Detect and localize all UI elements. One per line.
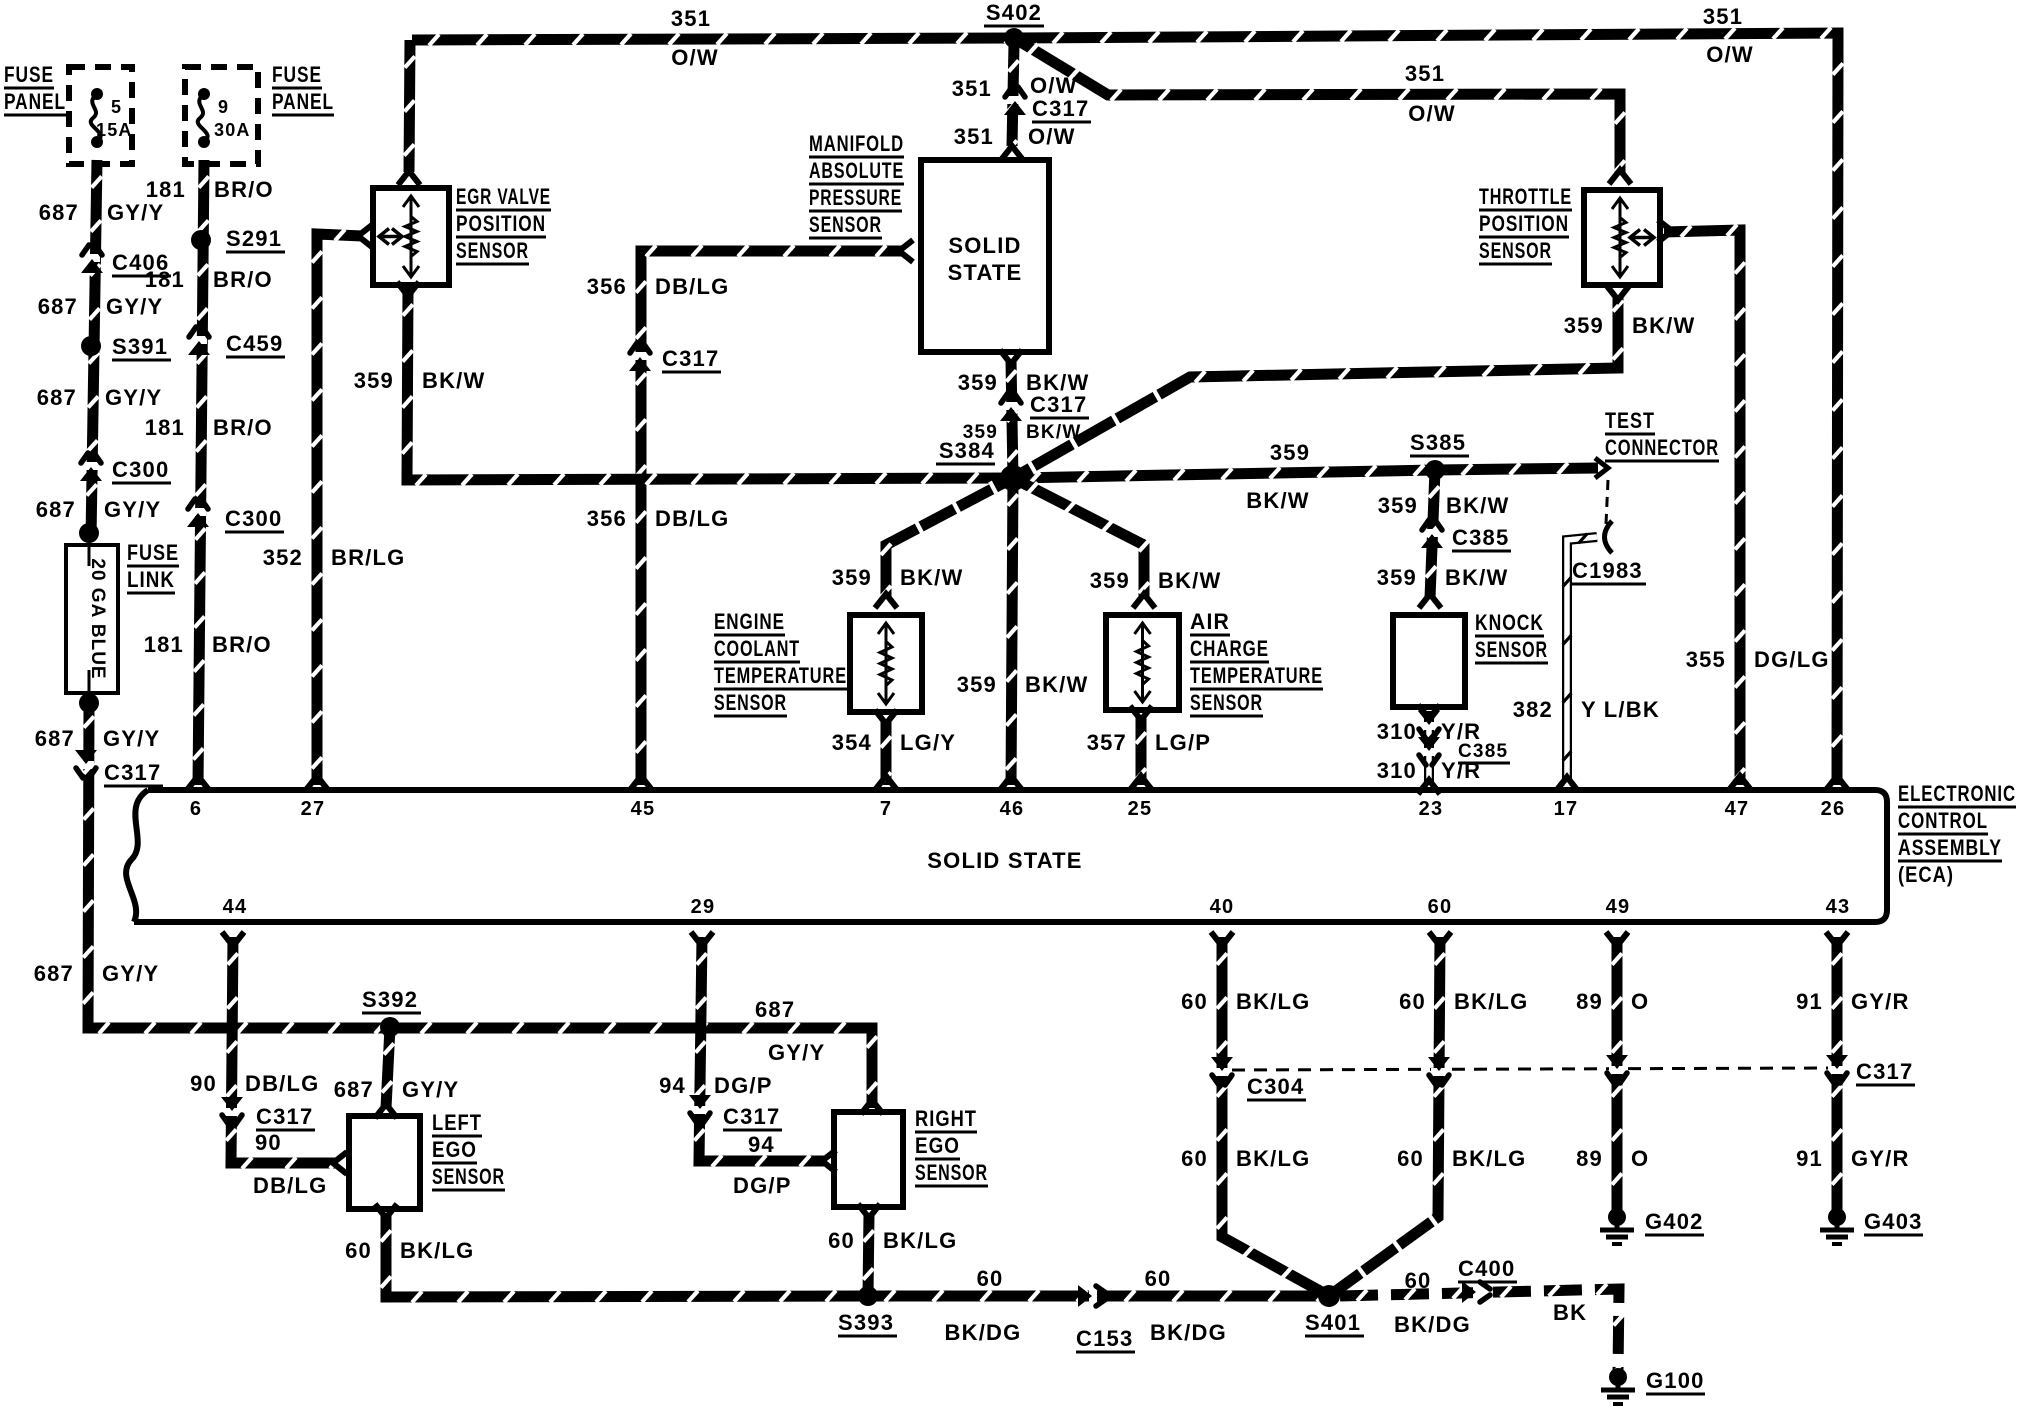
svg-text:DB/LG: DB/LG xyxy=(253,1173,327,1198)
svg-text:Y L/BK: Y L/BK xyxy=(1581,697,1660,722)
svg-text:357: 357 xyxy=(1087,730,1127,755)
wire 91 GY/R ECA pin 43 to ground G403 xyxy=(1832,937,1842,1212)
svg-text:359: 359 xyxy=(1378,493,1418,518)
svg-text:DB/LG: DB/LG xyxy=(245,1071,319,1096)
svg-text:30A: 30A xyxy=(214,120,251,140)
svg-text:DG/P: DG/P xyxy=(714,1073,773,1098)
svg-text:Y/R: Y/R xyxy=(1441,758,1481,783)
svg-text:SENSOR: SENSOR xyxy=(1475,637,1548,662)
svg-text:359: 359 xyxy=(957,672,997,697)
svg-text:20 GA BLUE: 20 GA BLUE xyxy=(87,558,108,679)
svg-text:BK/LG: BK/LG xyxy=(883,1228,957,1253)
fork MAP left xyxy=(899,240,913,262)
connector on 60 wire at C304 line xyxy=(1428,1057,1450,1085)
svg-text:FUSE: FUSE xyxy=(4,62,54,87)
svg-text:60: 60 xyxy=(1428,896,1453,918)
svg-text:27: 27 xyxy=(301,798,326,820)
svg-text:359: 359 xyxy=(958,370,998,395)
svg-text:359: 359 xyxy=(1377,565,1417,590)
svg-text:382: 382 xyxy=(1513,697,1553,722)
svg-text:BK/LG: BK/LG xyxy=(1236,989,1310,1014)
svg-text:BK/W: BK/W xyxy=(1446,493,1509,518)
svg-text:CHARGE: CHARGE xyxy=(1190,636,1269,661)
svg-text:SENSOR: SENSOR xyxy=(915,1160,988,1185)
svg-text:355: 355 xyxy=(1686,647,1726,672)
svg-text:25: 25 xyxy=(1128,798,1153,820)
fork knock top xyxy=(1419,594,1441,608)
svg-text:94: 94 xyxy=(748,1132,775,1157)
svg-text:60: 60 xyxy=(977,1266,1004,1291)
connector C304 on 40 wire xyxy=(1211,1057,1233,1085)
svg-text:C400: C400 xyxy=(1458,1256,1515,1281)
fork pin44 xyxy=(222,932,244,946)
svg-text:TEMPERATURE: TEMPERATURE xyxy=(1190,663,1323,688)
wire 359 BK/W EGR bottom to S384 xyxy=(402,288,1013,486)
svg-text:S402: S402 xyxy=(986,0,1042,25)
connector C317 left fuse wire xyxy=(75,750,97,778)
svg-text:BK: BK xyxy=(1553,1300,1587,1325)
wire 60 BK/LG ECA pin 60 to S401 xyxy=(1329,937,1445,1296)
svg-text:LG/Y: LG/Y xyxy=(900,730,956,755)
svg-text:G100: G100 xyxy=(1646,1368,1705,1393)
svg-text:LINK: LINK xyxy=(127,567,175,592)
svg-text:BK/LG: BK/LG xyxy=(400,1238,474,1263)
svg-text:SOLID: SOLID xyxy=(948,233,1021,258)
wire 351 O/W from S402 to throttle position sensor xyxy=(1014,38,1625,174)
svg-text:G402: G402 xyxy=(1645,1209,1704,1234)
wire 60 BK/LG right EGO to S393 xyxy=(863,1214,874,1296)
svg-text:60: 60 xyxy=(1145,1266,1172,1291)
svg-text:C317: C317 xyxy=(256,1104,313,1129)
svg-text:TEST: TEST xyxy=(1605,408,1655,433)
svg-text:45: 45 xyxy=(631,798,656,820)
svg-text:BK/W: BK/W xyxy=(1632,313,1695,338)
svg-text:SENSOR: SENSOR xyxy=(1479,238,1552,263)
svg-text:ASSEMBLY: ASSEMBLY xyxy=(1898,835,2002,860)
svg-text:LEFT: LEFT xyxy=(432,1110,482,1135)
left EGO sensor box xyxy=(349,1116,420,1209)
svg-text:687: 687 xyxy=(35,726,75,751)
svg-text:60: 60 xyxy=(345,1238,372,1263)
svg-text:90: 90 xyxy=(255,1130,282,1155)
svg-text:C317: C317 xyxy=(1856,1059,1913,1084)
svg-text:60: 60 xyxy=(1397,1146,1424,1171)
svg-text:BR/O: BR/O xyxy=(213,415,273,440)
wire 359 BK/W S384 down to ECA pin 46 xyxy=(1006,478,1018,785)
svg-text:C459: C459 xyxy=(226,331,283,356)
fork ACT bottom xyxy=(1130,706,1152,720)
junction dot below fuse link xyxy=(79,693,99,713)
svg-text:BK/W: BK/W xyxy=(1026,422,1081,443)
svg-text:FUSE: FUSE xyxy=(127,540,179,565)
wire 351 O/W EGR top drop xyxy=(404,40,415,172)
fuse 5 15A symbol xyxy=(91,88,103,148)
fork pin60 xyxy=(1429,932,1451,946)
wire 60 BK/LG ECA pin 40 to S401 xyxy=(1217,937,1330,1300)
svg-text:181: 181 xyxy=(145,415,185,440)
svg-text:DB/LG: DB/LG xyxy=(655,506,729,531)
fuse link box xyxy=(66,545,118,693)
fork knock bottom xyxy=(1418,705,1440,719)
svg-text:KNOCK: KNOCK xyxy=(1475,610,1544,635)
wire 351 O/W from S402 to MAP sensor xyxy=(1007,44,1019,152)
fuse panel 1 dashed box xyxy=(69,67,132,164)
svg-text:O/W: O/W xyxy=(1030,73,1078,98)
svg-text:GY/R: GY/R xyxy=(1851,1146,1910,1171)
svg-text:17: 17 xyxy=(1554,798,1579,820)
svg-text:DG/P: DG/P xyxy=(733,1173,792,1198)
EGR potentiometer symbol xyxy=(379,196,419,277)
wire 359 BK/W S384 to air charge temp sensor xyxy=(1013,478,1149,598)
wire 60 BK S401 to ground G100 (dashed) xyxy=(1340,1284,1624,1374)
wire 60 BK/DG S393 to S401 xyxy=(868,1290,1329,1301)
fuse link inner stubs xyxy=(88,545,91,566)
ACT resistor symbol xyxy=(1135,623,1151,702)
fork pin45 xyxy=(630,776,652,790)
svg-text:(ECA): (ECA) xyxy=(1898,862,1954,887)
svg-text:351: 351 xyxy=(954,124,994,149)
svg-text:BR/O: BR/O xyxy=(212,632,272,657)
svg-text:356: 356 xyxy=(587,274,627,299)
svg-text:SENSOR: SENSOR xyxy=(714,690,787,715)
svg-text:O: O xyxy=(1631,1146,1649,1171)
svg-text:EGO: EGO xyxy=(915,1133,960,1158)
svg-text:687: 687 xyxy=(39,200,79,225)
svg-text:S385: S385 xyxy=(1410,430,1466,455)
fork pin26 xyxy=(1826,776,1848,790)
wire 351 O/W top horizontal and right drop to pin 26 xyxy=(412,28,1843,786)
svg-text:49: 49 xyxy=(1606,896,1631,918)
connector C317 on 91 wire xyxy=(1826,1055,1848,1083)
svg-text:COOLANT: COOLANT xyxy=(714,636,800,661)
connector C317 above S384 xyxy=(1000,393,1022,421)
fork EGR bottom xyxy=(397,282,419,296)
svg-text:PANEL: PANEL xyxy=(4,89,66,114)
wire 181 BR/O fuse panel to ECA pin 6 xyxy=(193,160,209,785)
svg-text:GY/R: GY/R xyxy=(1851,989,1910,1014)
fork pin46 xyxy=(1000,776,1022,790)
svg-text:351: 351 xyxy=(1405,61,1445,86)
fork right EGO left xyxy=(822,1150,836,1172)
wire 90 DB/LG ECA pin 44 to left EGO sensor xyxy=(226,937,340,1169)
svg-text:GY/Y: GY/Y xyxy=(106,294,163,319)
svg-text:47: 47 xyxy=(1725,798,1750,820)
svg-text:DG/LG: DG/LG xyxy=(1754,647,1830,672)
svg-text:BK/W: BK/W xyxy=(900,565,963,590)
svg-text:60: 60 xyxy=(1399,989,1426,1014)
svg-text:C300: C300 xyxy=(112,457,169,482)
electronic control assembly (ECA) box xyxy=(126,790,1887,922)
right EGO sensor box xyxy=(834,1112,903,1207)
fork pin43 xyxy=(1826,932,1848,946)
svg-text:89: 89 xyxy=(1576,989,1603,1014)
fork left EGO top xyxy=(375,1104,397,1118)
fork pin23 xyxy=(1418,780,1440,794)
svg-text:O/W: O/W xyxy=(1706,42,1754,67)
wire 359 BK/W S385 down to knock sensor xyxy=(1426,470,1439,598)
fork pin47 xyxy=(1729,776,1751,790)
connector C1983 arc xyxy=(1605,521,1613,553)
splice S385 xyxy=(1425,460,1445,480)
connector C459 xyxy=(188,327,210,355)
svg-text:S391: S391 xyxy=(112,334,168,359)
svg-text:BK/LG: BK/LG xyxy=(1452,1146,1526,1171)
fork ECT top xyxy=(875,594,897,608)
svg-text:AIR: AIR xyxy=(1190,609,1230,634)
svg-text:FUSE: FUSE xyxy=(272,62,322,87)
fork pin6 xyxy=(187,776,209,790)
wire 687 GY/Y fuse link to S392 and right EGO sensor xyxy=(83,700,877,1108)
fork MAP top xyxy=(1001,146,1023,160)
svg-text:O/W: O/W xyxy=(671,45,719,70)
svg-text:GY/Y: GY/Y xyxy=(107,200,164,225)
svg-text:THROTTLE: THROTTLE xyxy=(1479,184,1572,209)
splice S393 xyxy=(858,1286,878,1306)
svg-text:S401: S401 xyxy=(1305,1310,1361,1335)
svg-text:687: 687 xyxy=(37,385,77,410)
svg-text:O/W: O/W xyxy=(1408,101,1456,126)
wire 359 BK/W S384 right to test connector xyxy=(1013,463,1598,483)
wire 352 BR/LG EGR wiper to ECA pin 27 xyxy=(312,229,362,785)
svg-text:BK/W: BK/W xyxy=(1445,565,1508,590)
svg-text:687: 687 xyxy=(36,497,76,522)
svg-text:TEMPERATURE: TEMPERATURE xyxy=(714,663,847,688)
svg-text:359: 359 xyxy=(1090,568,1130,593)
wire 356 DB/LG MAP to ECA pin 45 xyxy=(636,245,903,785)
wire 310 Y/R knock sensor to ECA pin 23 xyxy=(1425,709,1434,786)
svg-text:15A: 15A xyxy=(96,120,133,140)
svg-text:RIGHT: RIGHT xyxy=(915,1106,977,1131)
EGR valve position sensor box xyxy=(373,188,449,285)
svg-text:354: 354 xyxy=(832,730,872,755)
svg-text:ELECTRONIC: ELECTRONIC xyxy=(1898,781,2016,806)
fork pin29 xyxy=(691,932,713,946)
junction dot above fuse link xyxy=(79,523,99,543)
connector C317 on 356 wire xyxy=(629,343,651,371)
splice S392 xyxy=(380,1017,400,1037)
svg-text:C317: C317 xyxy=(723,1104,780,1129)
svg-text:BK/LG: BK/LG xyxy=(1454,989,1528,1014)
ground G402 xyxy=(1600,1208,1634,1244)
connector C385 lower 310 xyxy=(1418,737,1440,765)
svg-text:29: 29 xyxy=(691,896,716,918)
connector on 89 wire xyxy=(1606,1055,1628,1083)
connector C317 on 90 wire xyxy=(221,1097,243,1125)
svg-text:BK/W: BK/W xyxy=(422,368,485,393)
svg-text:SENSOR: SENSOR xyxy=(432,1164,505,1189)
svg-text:359: 359 xyxy=(354,368,394,393)
svg-text:PRESSURE: PRESSURE xyxy=(809,185,902,210)
svg-text:C304: C304 xyxy=(1247,1074,1304,1099)
fork pin17 xyxy=(1556,777,1578,791)
svg-text:BK/W: BK/W xyxy=(1246,488,1309,513)
wire 359 BK/W S384 to engine coolant temp sensor xyxy=(881,478,1013,598)
svg-text:60: 60 xyxy=(828,1228,855,1253)
svg-text:SOLID STATE: SOLID STATE xyxy=(927,848,1082,873)
fork right EGO top xyxy=(861,1100,883,1114)
svg-text:STATE: STATE xyxy=(948,260,1023,285)
wire 60 BK/LG left EGO to S393 xyxy=(381,1214,868,1303)
fork pin7 xyxy=(875,776,897,790)
svg-text:5: 5 xyxy=(111,97,122,117)
svg-text:GY/Y: GY/Y xyxy=(768,1040,825,1065)
connector C317 on 94 wire xyxy=(689,1095,711,1123)
fork EGR top xyxy=(398,171,420,185)
svg-text:DB/LG: DB/LG xyxy=(655,274,729,299)
svg-text:181: 181 xyxy=(145,267,185,292)
fork pin27 xyxy=(306,776,328,790)
fork ECT bottom xyxy=(875,710,897,724)
svg-text:C385: C385 xyxy=(1452,525,1509,550)
svg-text:43: 43 xyxy=(1826,896,1851,918)
wire 382 YL/BK C1983 to ECA pin 17 xyxy=(1563,534,1597,786)
TPS potentiometer symbol xyxy=(1612,198,1654,277)
wire 94 DG/P ECA pin 29 to right EGO sensor xyxy=(694,937,826,1167)
connector 310 upper xyxy=(1418,711,1440,739)
svg-text:359: 359 xyxy=(832,565,872,590)
svg-text:94: 94 xyxy=(659,1073,686,1098)
ECT resistor symbol xyxy=(878,623,894,704)
svg-text:BR/O: BR/O xyxy=(213,267,273,292)
fork TPS top xyxy=(1609,170,1631,184)
wire 89 O ECA pin 49 to ground G402 xyxy=(1612,937,1622,1212)
svg-text:MANIFOLD: MANIFOLD xyxy=(809,131,904,156)
svg-text:7: 7 xyxy=(880,798,892,820)
svg-text:C317: C317 xyxy=(662,346,719,371)
svg-text:BK/DG: BK/DG xyxy=(1150,1320,1227,1345)
svg-text:EGO: EGO xyxy=(432,1137,477,1162)
fork right EGO bottom xyxy=(858,1204,880,1218)
svg-text:GY/Y: GY/Y xyxy=(103,726,160,751)
fork MAP bottom xyxy=(1000,350,1022,364)
svg-text:BR/LG: BR/LG xyxy=(331,545,405,570)
connector C300 left xyxy=(80,453,102,481)
svg-text:C317: C317 xyxy=(1032,96,1089,121)
svg-text:687: 687 xyxy=(755,997,795,1022)
svg-text:S384: S384 xyxy=(939,438,995,463)
fork left EGO bottom xyxy=(375,1204,397,1218)
fork TPS bottom xyxy=(1607,286,1629,300)
svg-text:BK/LG: BK/LG xyxy=(1236,1146,1310,1171)
air charge temperature sensor box xyxy=(1106,615,1179,710)
svg-text:GY/Y: GY/Y xyxy=(402,1077,459,1102)
connector C153 xyxy=(1078,1285,1106,1307)
svg-text:89: 89 xyxy=(1576,1146,1603,1171)
svg-text:60: 60 xyxy=(1405,1268,1432,1293)
svg-text:C300: C300 xyxy=(225,506,282,531)
splice S391 xyxy=(81,336,101,356)
svg-text:ABSOLUTE: ABSOLUTE xyxy=(809,158,904,183)
svg-text:SENSOR: SENSOR xyxy=(1190,690,1263,715)
connector C300 right xyxy=(187,499,209,527)
svg-text:40: 40 xyxy=(1210,896,1235,918)
svg-text:GY/Y: GY/Y xyxy=(104,497,161,522)
svg-text:PANEL: PANEL xyxy=(272,89,334,114)
svg-text:23: 23 xyxy=(1419,798,1444,820)
svg-text:C317: C317 xyxy=(1030,392,1087,417)
fuse 9 30A symbol xyxy=(198,88,210,148)
svg-text:C1983: C1983 xyxy=(1572,558,1643,583)
svg-text:60: 60 xyxy=(1181,1146,1208,1171)
svg-text:O/W: O/W xyxy=(1028,124,1076,149)
test connector end fork xyxy=(1595,458,1608,478)
svg-text:687: 687 xyxy=(34,961,74,986)
svg-text:SENSOR: SENSOR xyxy=(809,212,882,237)
svg-text:46: 46 xyxy=(1000,798,1025,820)
svg-text:C153: C153 xyxy=(1076,1326,1133,1351)
svg-text:SENSOR: SENSOR xyxy=(456,238,529,263)
svg-text:351: 351 xyxy=(1703,4,1743,29)
fork pin40 xyxy=(1211,932,1233,946)
svg-text:687: 687 xyxy=(334,1077,374,1102)
fork TPS wiper xyxy=(1658,220,1672,242)
svg-text:C317: C317 xyxy=(104,760,161,785)
svg-text:POSITION: POSITION xyxy=(1479,211,1569,236)
dashed connector line C304 to C317 xyxy=(1232,1068,1828,1070)
svg-text:BK/DG: BK/DG xyxy=(1394,1312,1471,1337)
ground G403 xyxy=(1820,1208,1854,1244)
svg-text:EGR VALVE: EGR VALVE xyxy=(456,184,551,209)
svg-text:91: 91 xyxy=(1796,1146,1823,1171)
throttle position sensor box xyxy=(1584,190,1660,285)
connector C400 xyxy=(1462,1281,1490,1303)
ground G100 xyxy=(1601,1368,1635,1404)
dashed link test connector to C1983 xyxy=(1606,480,1608,524)
svg-text:351: 351 xyxy=(671,6,711,31)
svg-text:BK/DG: BK/DG xyxy=(945,1320,1022,1345)
svg-text:BR/O: BR/O xyxy=(214,177,274,202)
svg-text:359: 359 xyxy=(1270,440,1310,465)
svg-text:LG/P: LG/P xyxy=(1155,730,1211,755)
fork left EGO left xyxy=(333,1152,347,1174)
svg-text:356: 356 xyxy=(587,506,627,531)
svg-text:687: 687 xyxy=(38,294,78,319)
fork pin49 xyxy=(1606,932,1628,946)
svg-text:S291: S291 xyxy=(226,226,282,251)
fork EGR wiper xyxy=(358,225,372,247)
svg-text:GY/Y: GY/Y xyxy=(105,385,162,410)
svg-text:181: 181 xyxy=(146,177,186,202)
connector C385 above knock sensor xyxy=(1421,520,1443,548)
splice S401 xyxy=(1318,1285,1340,1307)
svg-text:S393: S393 xyxy=(838,1310,894,1335)
svg-text:CONNECTOR: CONNECTOR xyxy=(1605,435,1719,460)
svg-text:BK/W: BK/W xyxy=(1158,568,1221,593)
splice S384 xyxy=(1000,465,1026,491)
wire 687 GY/Y S392 to left EGO sensor xyxy=(382,1027,394,1108)
connector C406 xyxy=(81,245,103,273)
wire 357 LG/P ACT to ECA pin 25 xyxy=(1136,716,1146,785)
svg-text:310: 310 xyxy=(1377,758,1417,783)
svg-text:90: 90 xyxy=(190,1071,217,1096)
svg-text:POSITION: POSITION xyxy=(456,211,546,236)
wire 359 BK/W S384 up to MAP bottom xyxy=(1006,360,1017,478)
svg-text:BK/W: BK/W xyxy=(1025,672,1088,697)
wire 354 LG/Y ECT to ECA pin 7 xyxy=(881,720,891,785)
knock sensor box xyxy=(1393,615,1465,707)
svg-text:44: 44 xyxy=(223,896,248,918)
svg-text:352: 352 xyxy=(263,545,303,570)
svg-text:6: 6 xyxy=(190,798,202,820)
fork pin25 xyxy=(1130,776,1152,790)
svg-text:S392: S392 xyxy=(362,987,418,1012)
svg-text:60: 60 xyxy=(1181,989,1208,1014)
svg-text:310: 310 xyxy=(1377,719,1417,744)
fork ACT top xyxy=(1133,594,1155,608)
connector C317 on MAP drop xyxy=(1004,87,1026,115)
splice S402 xyxy=(1004,28,1024,48)
svg-text:O: O xyxy=(1631,989,1649,1014)
